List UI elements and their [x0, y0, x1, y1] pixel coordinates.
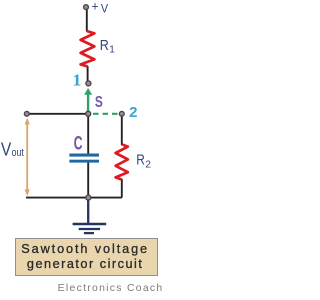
- svg-text:1: 1: [72, 70, 81, 89]
- svg-text:R: R: [100, 37, 109, 54]
- svg-text:S: S: [95, 94, 103, 111]
- svg-text:out: out: [12, 147, 24, 159]
- svg-text:V: V: [1, 138, 12, 159]
- svg-text:R: R: [136, 153, 145, 169]
- svg-text:1: 1: [109, 45, 115, 56]
- svg-text:2: 2: [129, 104, 137, 121]
- svg-text:2: 2: [145, 159, 151, 170]
- svg-text:C: C: [74, 133, 83, 155]
- svg-text:V: V: [101, 2, 109, 16]
- svg-text:+: +: [91, 0, 98, 14]
